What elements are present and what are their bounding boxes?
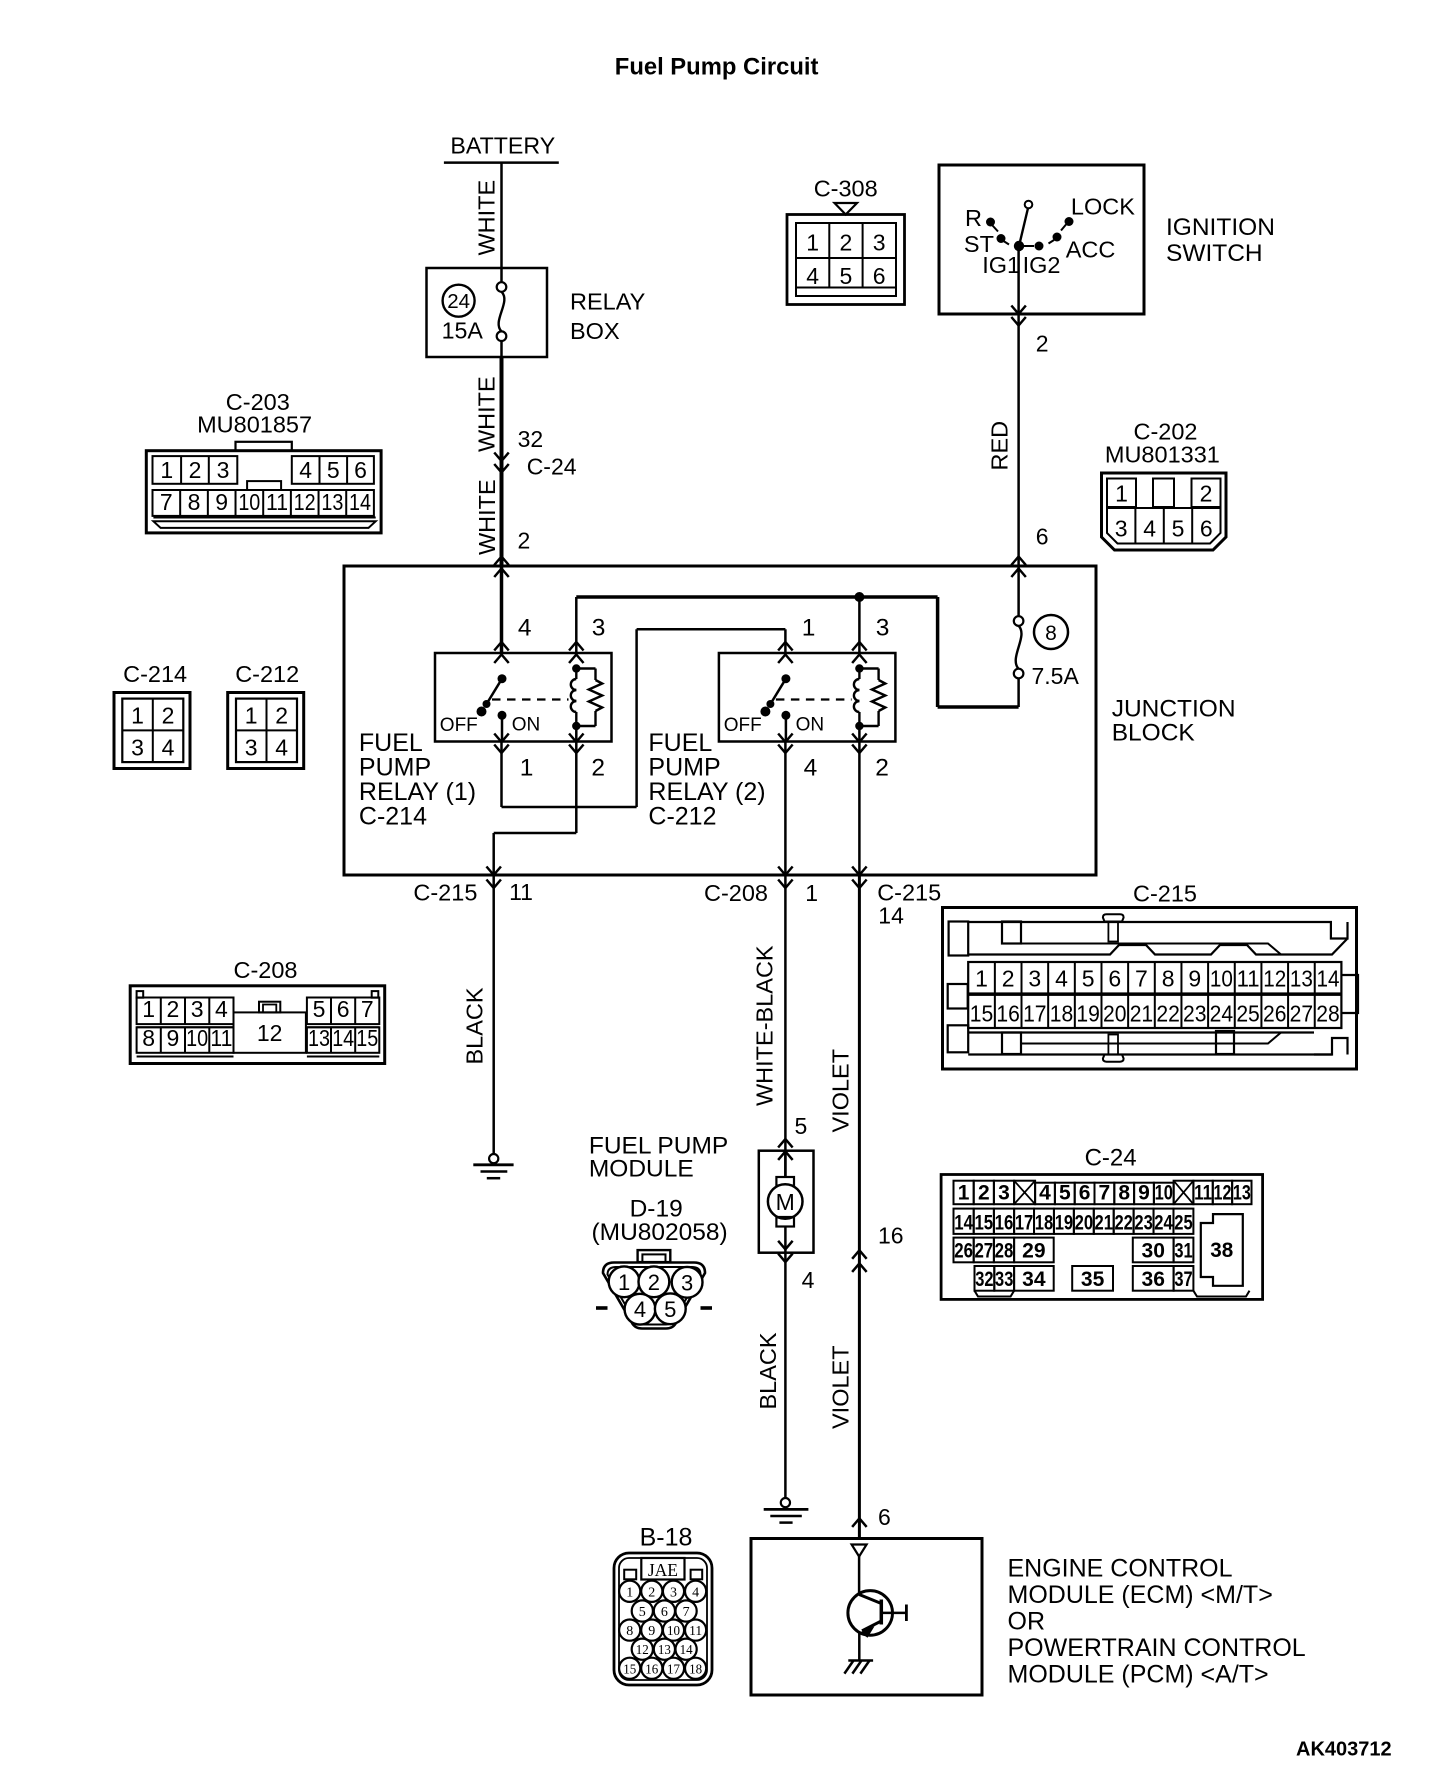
svg-text:31: 31 (1174, 1240, 1193, 1263)
svg-text:16: 16 (995, 1211, 1014, 1234)
svg-text:MODULE (PCM) <A/T>: MODULE (PCM) <A/T> (1008, 1661, 1269, 1689)
svg-text:12: 12 (257, 1020, 283, 1046)
svg-text:C-215: C-215 (1133, 881, 1197, 907)
svg-text:C-215: C-215 (413, 880, 477, 906)
svg-text:6: 6 (878, 1504, 891, 1530)
svg-text:5: 5 (1172, 516, 1185, 542)
svg-text:6: 6 (354, 457, 367, 483)
svg-text:5: 5 (840, 263, 853, 289)
svg-text:10: 10 (1210, 966, 1233, 992)
svg-text:36: 36 (1142, 1268, 1165, 1291)
svg-text:29: 29 (1022, 1240, 1045, 1263)
wire junction top to relay 1 pin 4 (500, 566, 504, 653)
svg-text:8: 8 (142, 1025, 155, 1051)
fuel pump relay box C-212 (719, 653, 896, 742)
relay coil C-212 (854, 664, 864, 741)
svg-text:32: 32 (975, 1268, 993, 1291)
relay switch C-214 (477, 674, 507, 741)
svg-text:R: R (965, 205, 982, 231)
svg-text:4: 4 (806, 263, 819, 289)
junction dot on bus (854, 592, 864, 602)
svg-text:6: 6 (1108, 966, 1121, 992)
svg-text:3: 3 (245, 735, 258, 761)
svg-text:4: 4 (162, 735, 175, 761)
connector D-19 legend (596, 1250, 712, 1328)
svg-text:4: 4 (275, 735, 288, 761)
svg-text:1: 1 (975, 966, 988, 992)
svg-text:11: 11 (1237, 966, 1260, 992)
svg-text:11: 11 (266, 489, 288, 515)
svg-text:21: 21 (1130, 1001, 1154, 1027)
svg-text:3: 3 (131, 735, 144, 761)
svg-text:10: 10 (667, 1624, 680, 1639)
svg-text:10: 10 (1155, 1182, 1173, 1205)
svg-text:C-214: C-214 (123, 661, 187, 687)
svg-text:23: 23 (1183, 1001, 1207, 1027)
svg-text:15: 15 (970, 1001, 994, 1027)
ground symbol fuel pump (764, 1498, 809, 1523)
relay actuation dashed link C-212 (776, 698, 852, 700)
svg-text:1: 1 (805, 880, 818, 906)
svg-text:5: 5 (795, 1113, 808, 1139)
label FUEL PUMP MODULE (589, 1133, 728, 1247)
svg-text:15A: 15A (442, 318, 484, 344)
svg-text:32: 32 (518, 426, 544, 452)
svg-text:6: 6 (873, 263, 886, 289)
svg-text:2: 2 (840, 230, 853, 256)
in-line connector C-24 pin 16 on violet wire (852, 1223, 903, 1272)
svg-text:13: 13 (658, 1643, 671, 1658)
svg-text:24: 24 (1154, 1211, 1173, 1234)
label ENGINE CONTROL MODULE (1008, 1555, 1306, 1689)
svg-text:8: 8 (1118, 1182, 1130, 1205)
svg-text:ON: ON (796, 715, 825, 736)
svg-text:38: 38 (1210, 1239, 1233, 1262)
svg-text:1: 1 (160, 457, 173, 483)
svg-text:22: 22 (1114, 1211, 1132, 1234)
svg-text:6: 6 (1036, 524, 1049, 550)
svg-text:16: 16 (878, 1223, 904, 1249)
svg-text:17: 17 (1023, 1001, 1047, 1027)
svg-text:5: 5 (327, 457, 340, 483)
svg-text:6: 6 (1200, 516, 1213, 542)
svg-text:11: 11 (1194, 1182, 1212, 1205)
svg-text:1: 1 (520, 754, 534, 781)
wire relay 2 pin 2 to junction bottom (858, 742, 861, 876)
wire bus right leg down and to fuse (938, 597, 1019, 707)
wire relay 1 pin 2 to junction bottom (494, 742, 577, 876)
svg-text:3: 3 (191, 996, 204, 1022)
svg-text:C-212: C-212 (648, 803, 716, 831)
svg-text:OFF: OFF (440, 715, 478, 736)
svg-text:MU801857: MU801857 (197, 412, 312, 438)
svg-text:28: 28 (1316, 1001, 1340, 1027)
svg-text:8: 8 (1045, 622, 1057, 645)
connector C-308 legend (787, 176, 905, 305)
svg-text:15: 15 (974, 1211, 993, 1234)
fuse 8 7.5A in junction block (1014, 615, 1080, 707)
svg-text:JAE: JAE (648, 1560, 678, 1580)
label RELAY BOX (570, 289, 646, 345)
svg-text:C-214: C-214 (359, 803, 427, 831)
svg-text:5: 5 (1059, 1182, 1071, 1205)
svg-text:12: 12 (636, 1643, 649, 1658)
svg-text:7: 7 (1135, 966, 1148, 992)
svg-text:9: 9 (1188, 966, 1201, 992)
svg-text:2: 2 (1036, 331, 1049, 357)
label JUNCTION BLOCK (1112, 696, 1236, 747)
svg-text:5: 5 (639, 1605, 646, 1620)
svg-text:13: 13 (308, 1025, 330, 1051)
engine control module box (751, 1539, 982, 1696)
svg-text:3: 3 (873, 230, 886, 256)
wire relay box to junction block, WHITE (474, 357, 502, 566)
wire WHITE-BLACK junction to fuel pump module (752, 875, 786, 1177)
svg-text:14: 14 (954, 1211, 973, 1234)
wire battery to relay box, WHITE (474, 163, 502, 268)
svg-text:7: 7 (361, 996, 374, 1022)
svg-text:4: 4 (215, 996, 228, 1022)
svg-text:2: 2 (275, 703, 288, 729)
svg-text:35: 35 (1081, 1268, 1105, 1291)
connector crossing arrows relay C-214 bottom (494, 734, 583, 754)
svg-text:13: 13 (1290, 966, 1313, 992)
svg-text:2: 2 (518, 528, 531, 554)
svg-text:9: 9 (167, 1025, 180, 1051)
svg-text:C-212: C-212 (235, 661, 299, 687)
svg-text:3: 3 (670, 1585, 677, 1600)
svg-text:19: 19 (1076, 1001, 1100, 1027)
svg-text:1: 1 (131, 703, 144, 729)
svg-text:7.5A: 7.5A (1032, 663, 1080, 689)
svg-text:RELAY: RELAY (570, 289, 646, 315)
svg-text:1: 1 (806, 230, 819, 256)
svg-text:23: 23 (1134, 1211, 1152, 1234)
svg-text:1: 1 (142, 996, 155, 1022)
junction exit C-215 pin 11 (413, 867, 533, 906)
ignition switch box (939, 165, 1144, 314)
svg-text:22: 22 (1156, 1001, 1180, 1027)
svg-text:12: 12 (1214, 1182, 1232, 1205)
svg-text:4: 4 (692, 1585, 699, 1600)
svg-text:24: 24 (1210, 1001, 1234, 1027)
svg-text:LOCK: LOCK (1071, 194, 1135, 220)
svg-text:19: 19 (1055, 1211, 1073, 1234)
svg-text:MODULE (ECM) <M/T>: MODULE (ECM) <M/T> (1008, 1581, 1273, 1609)
svg-text:6: 6 (337, 996, 350, 1022)
svg-text:5: 5 (664, 1297, 676, 1322)
svg-text:27: 27 (1290, 1001, 1314, 1027)
wire relay 2 pin 1 feed from relay 1 pin 1 (502, 629, 786, 807)
svg-text:1: 1 (802, 615, 816, 642)
fuse 24 15A in relay box (442, 268, 507, 357)
labels OFF ON C-214 (440, 715, 540, 737)
svg-text:3: 3 (1115, 516, 1128, 542)
pin 6 entering ECM (852, 1504, 891, 1557)
in-line connector C-24 pin 32 on white wire (494, 426, 577, 480)
svg-text:2: 2 (978, 1182, 990, 1205)
svg-text:2: 2 (1002, 966, 1015, 992)
svg-text:34: 34 (1022, 1268, 1046, 1291)
svg-text:2: 2 (648, 1585, 655, 1600)
svg-text:25: 25 (1236, 1001, 1260, 1027)
resistor parallel to coil C-214 (576, 669, 602, 727)
svg-text:VIOLET: VIOLET (828, 1345, 854, 1429)
svg-text:7: 7 (1099, 1182, 1111, 1205)
resistor parallel to coil C-212 (859, 669, 885, 727)
wire BLACK fuel pump to ground (755, 1253, 785, 1498)
svg-text:6: 6 (1079, 1182, 1091, 1205)
svg-text:2: 2 (1200, 481, 1213, 507)
svg-text:VIOLET: VIOLET (828, 1049, 854, 1133)
svg-text:3: 3 (998, 1182, 1010, 1205)
svg-text:26: 26 (954, 1240, 973, 1263)
svg-text:1: 1 (245, 703, 258, 729)
connector C-24 legend (941, 1145, 1263, 1300)
svg-text:9: 9 (648, 1624, 655, 1639)
svg-text:3: 3 (876, 615, 890, 642)
wire junction top to fuse 8 (1017, 566, 1020, 616)
svg-text:OFF: OFF (724, 715, 762, 736)
svg-text:25: 25 (1174, 1211, 1193, 1234)
svg-text:M: M (776, 1189, 795, 1215)
connector C-208 legend (130, 957, 385, 1064)
wire VIOLET junction to ECM (828, 875, 860, 1539)
svg-text:WHITE: WHITE (474, 376, 500, 452)
svg-text:15: 15 (356, 1025, 378, 1051)
connector C-214 legend (114, 661, 190, 769)
wire ignition switch pin 2, RED (987, 251, 1049, 566)
connector crossing arrows relay C-214 top (494, 642, 583, 663)
svg-text:ON: ON (512, 715, 541, 736)
svg-text:14: 14 (1317, 966, 1340, 992)
svg-text:IGNITION: IGNITION (1166, 214, 1275, 241)
svg-text:21: 21 (1095, 1211, 1114, 1234)
svg-text:WHITE: WHITE (474, 180, 500, 256)
svg-text:20: 20 (1103, 1001, 1127, 1027)
svg-text:13: 13 (1233, 1182, 1251, 1205)
svg-text:18: 18 (1035, 1211, 1054, 1234)
ground symbol in ECM (844, 1661, 873, 1674)
svg-text:3: 3 (592, 615, 606, 642)
svg-text:JUNCTION: JUNCTION (1112, 696, 1236, 723)
connector C-203 MU801857 legend (146, 389, 381, 533)
svg-text:3: 3 (217, 457, 230, 483)
svg-text:30: 30 (1142, 1240, 1165, 1263)
svg-text:16: 16 (645, 1662, 658, 1677)
svg-text:11: 11 (210, 1025, 232, 1051)
svg-text:7: 7 (160, 489, 173, 515)
svg-text:C-24: C-24 (1085, 1145, 1137, 1172)
svg-text:18: 18 (1050, 1001, 1074, 1027)
svg-text:13: 13 (321, 489, 343, 515)
svg-text:WHITE-BLACK: WHITE-BLACK (752, 945, 778, 1106)
fuel pump motor box (759, 1151, 814, 1253)
svg-text:2: 2 (648, 1270, 660, 1295)
svg-text:12: 12 (294, 489, 316, 515)
wire relay 2 pin 4 to junction bottom (784, 742, 787, 876)
svg-text:POWERTRAIN CONTROL: POWERTRAIN CONTROL (1008, 1634, 1306, 1662)
connector C-202 MU801331 legend (1102, 419, 1227, 551)
svg-text:IG1: IG1 (982, 252, 1020, 278)
fuel pump motor M (768, 1151, 803, 1253)
svg-text:14: 14 (349, 489, 371, 515)
svg-text:5: 5 (1082, 966, 1095, 992)
svg-text:4: 4 (1055, 966, 1068, 992)
svg-text:3: 3 (1028, 966, 1041, 992)
ground symbol left (473, 1154, 513, 1178)
arrows leaving fuel pump module pin 4 (778, 1241, 814, 1293)
svg-text:4: 4 (299, 457, 312, 483)
svg-text:26: 26 (1263, 1001, 1287, 1027)
svg-text:2: 2 (162, 703, 175, 729)
svg-text:IG2: IG2 (1023, 252, 1061, 278)
svg-text:17: 17 (1015, 1211, 1033, 1234)
svg-text:14: 14 (680, 1643, 693, 1658)
svg-text:5: 5 (313, 996, 326, 1022)
connector crossing arrows relay C-212 top (778, 642, 867, 663)
transistor Q in ECM (848, 1557, 907, 1661)
relay actuation dashed link C-214 (492, 698, 569, 700)
svg-text:10: 10 (186, 1025, 208, 1051)
relay switch C-212 (760, 674, 790, 741)
svg-text:24: 24 (447, 290, 470, 313)
svg-text:7: 7 (683, 1605, 690, 1620)
svg-text:BLACK: BLACK (462, 987, 488, 1064)
junction exit C-208 pin 1 (704, 867, 818, 907)
svg-text:14: 14 (332, 1025, 354, 1051)
svg-text:16: 16 (996, 1001, 1020, 1027)
connector C-215 legend (943, 881, 1359, 1070)
svg-text:37: 37 (1174, 1268, 1192, 1291)
svg-text:14: 14 (878, 903, 904, 929)
svg-text:6: 6 (661, 1605, 668, 1620)
relay box (427, 268, 548, 357)
svg-text:2: 2 (167, 996, 180, 1022)
svg-text:11: 11 (509, 879, 533, 905)
svg-text:12: 12 (1263, 966, 1286, 992)
svg-text:2: 2 (591, 754, 605, 781)
connector C-212 legend (228, 661, 304, 769)
svg-text:BLOCK: BLOCK (1112, 720, 1196, 747)
connector B-18 legend (614, 1524, 712, 1686)
wire bus to relay 1 pin 3 (575, 597, 578, 653)
svg-text:4: 4 (802, 1267, 815, 1293)
svg-text:C-308: C-308 (814, 176, 878, 202)
junction exit C-215 pin 14 (852, 867, 941, 929)
junction block box (344, 566, 1096, 875)
svg-text:2: 2 (189, 457, 202, 483)
svg-text:MU801331: MU801331 (1105, 442, 1220, 468)
svg-text:10: 10 (238, 489, 260, 515)
svg-text:AK403712: AK403712 (1296, 1739, 1392, 1761)
svg-text:8: 8 (626, 1624, 633, 1639)
svg-text:BOX: BOX (570, 318, 620, 344)
svg-text:(MU802058): (MU802058) (592, 1219, 728, 1246)
svg-text:B-18: B-18 (640, 1524, 693, 1552)
svg-text:WHITE: WHITE (474, 479, 500, 555)
label IGNITION SWITCH (1166, 214, 1275, 267)
labels OFF ON C-212 (724, 715, 824, 737)
in-line pin 5 into fuel pump module (778, 1113, 807, 1160)
svg-text:8: 8 (1162, 966, 1175, 992)
wire bus dot down to relay 2 pin 3 (858, 597, 861, 653)
svg-text:18: 18 (689, 1662, 702, 1677)
svg-text:33: 33 (995, 1268, 1013, 1291)
svg-text:RED: RED (987, 421, 1013, 471)
connector crossing arrows relay C-212 bottom (778, 734, 867, 754)
svg-text:20: 20 (1075, 1211, 1093, 1234)
svg-text:1: 1 (618, 1270, 630, 1295)
svg-text:BLACK: BLACK (755, 1332, 781, 1409)
svg-text:2: 2 (875, 754, 889, 781)
label FUEL PUMP RELAY 2 C-212 (648, 729, 765, 831)
svg-text:11: 11 (689, 1624, 702, 1639)
svg-text:ACC: ACC (1066, 237, 1116, 263)
fuel pump relay box C-214 (435, 653, 612, 742)
pin 6 entering junction block (1011, 524, 1048, 578)
svg-text:3: 3 (681, 1270, 693, 1295)
svg-text:C-208: C-208 (234, 957, 298, 983)
svg-text:C-208: C-208 (704, 880, 768, 906)
svg-text:4: 4 (1039, 1182, 1051, 1205)
svg-text:28: 28 (995, 1240, 1014, 1263)
ignition switch rotary contacts (964, 194, 1135, 279)
svg-text:MODULE: MODULE (589, 1156, 694, 1183)
svg-text:ENGINE CONTROL: ENGINE CONTROL (1008, 1555, 1233, 1583)
relay coil C-214 (571, 664, 581, 741)
svg-text:17: 17 (667, 1662, 680, 1677)
svg-text:BATTERY: BATTERY (450, 132, 555, 158)
svg-text:C-24: C-24 (527, 454, 577, 480)
svg-text:Fuel Pump Circuit: Fuel Pump Circuit (615, 54, 819, 81)
svg-text:8: 8 (188, 489, 201, 515)
pin 2 entering junction block (494, 528, 530, 578)
node BATTERY (444, 132, 559, 162)
svg-text:4: 4 (804, 754, 818, 781)
svg-text:1: 1 (626, 1585, 633, 1600)
svg-text:9: 9 (215, 489, 228, 515)
wire BLACK to ground (462, 875, 494, 1154)
label FUEL PUMP RELAY 1 C-214 (359, 729, 476, 831)
svg-text:9: 9 (1138, 1182, 1150, 1205)
svg-text:4: 4 (634, 1297, 646, 1322)
svg-text:1: 1 (958, 1182, 970, 1205)
svg-text:SWITCH: SWITCH (1166, 240, 1263, 267)
svg-text:1: 1 (1115, 481, 1128, 507)
svg-text:4: 4 (1143, 516, 1156, 542)
svg-text:15: 15 (623, 1662, 636, 1677)
svg-text:27: 27 (974, 1240, 993, 1263)
svg-text:OR: OR (1008, 1608, 1046, 1636)
wire horizontal coil supply bus (576, 595, 937, 599)
svg-text:4: 4 (518, 615, 532, 642)
